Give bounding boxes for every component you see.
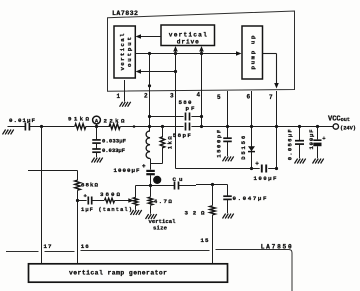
op-amp U2 LA7850 top edge bbox=[6, 251, 39, 253]
junction tantal branch bbox=[76, 199, 79, 202]
wire pin2 vertical bbox=[149, 54, 151, 132]
svg-text:0.056µF: 0.056µF bbox=[287, 129, 294, 161]
wire tantal branch bbox=[78, 200, 87, 202]
svg-text:22kΩ: 22kΩ bbox=[104, 117, 126, 124]
resistor 4.7ohm bbox=[150, 186, 152, 197]
svg-text:17: 17 bbox=[44, 243, 53, 250]
svg-text:LA7832: LA7832 bbox=[112, 10, 138, 17]
junction to pin17 drop bbox=[40, 125, 43, 128]
junction diode bottom bbox=[250, 167, 253, 170]
wire with wiper arrow into pot bbox=[115, 200, 129, 202]
capacitor 1000uF (polarized) bbox=[150, 164, 152, 170]
wire bbox=[30, 126, 75, 128]
junction pin4 top bbox=[200, 52, 203, 55]
resistor 1k (parallel) bbox=[162, 127, 164, 138]
ground 0.056uF bbox=[295, 159, 298, 164]
node A bbox=[93, 116, 101, 124]
svg-text:6: 6 bbox=[247, 93, 251, 100]
node B circle bbox=[153, 176, 161, 184]
svg-text:1: 1 bbox=[117, 93, 121, 100]
svg-text:3: 3 bbox=[170, 93, 174, 100]
wire pin2 to pin4 with 580pF bbox=[150, 116, 184, 118]
junction 32ohm bbox=[211, 183, 214, 186]
capacitor 0.033uF upper bbox=[92, 139, 101, 141]
svg-text:VCCout: VCCout bbox=[328, 115, 350, 123]
svg-text:4.7Ω: 4.7Ω bbox=[154, 198, 173, 205]
wire coil bottom to node bbox=[150, 159, 152, 164]
junction 0.056uF bbox=[298, 125, 301, 128]
svg-text:b: b bbox=[156, 178, 159, 184]
svg-text:1000µF: 1000µF bbox=[114, 167, 141, 174]
wire pin4 vertical bbox=[201, 49, 203, 127]
svg-text:pF: pF bbox=[186, 105, 196, 112]
svg-text:LA7850: LA7850 bbox=[261, 244, 292, 251]
ground 0.047uF bbox=[223, 214, 226, 219]
junction pin4 bbox=[200, 125, 203, 128]
capacitor 1500pF bbox=[223, 137, 232, 139]
wire bbox=[92, 200, 104, 202]
svg-text:68kΩ: 68kΩ bbox=[81, 182, 99, 189]
coil (deflection yoke) bbox=[146, 131, 150, 159]
ground 4.7ohm bbox=[146, 214, 149, 219]
junction pin7 bbox=[275, 125, 278, 128]
wire pin6 vertical (diode branch) bbox=[251, 91, 253, 169]
svg-text:0.033µF: 0.033µF bbox=[102, 147, 126, 154]
svg-text:vertical ramp generator: vertical ramp generator bbox=[69, 269, 167, 276]
bottom rail from vert-size pot to 0.047 corner bbox=[136, 185, 175, 187]
terminal VCCout bbox=[333, 124, 338, 129]
ground 0.033uF bbox=[92, 158, 95, 163]
arrow into drive at pin3 bbox=[175, 51, 177, 54]
junction pin2 bottom bbox=[148, 125, 151, 128]
wire to VCC terminal bbox=[191, 126, 333, 128]
junction wire-71 pin3 bbox=[174, 70, 177, 73]
junction pin3 top bbox=[174, 52, 177, 55]
junction 1k top bbox=[161, 125, 164, 128]
wire main horizontal left part bbox=[8, 126, 26, 128]
capacitor 0.033uF lower bbox=[92, 148, 101, 150]
diode D5156 bbox=[248, 146, 255, 151]
wire node A caps bbox=[96, 127, 98, 140]
svg-text:vertical: vertical bbox=[169, 32, 207, 39]
resistor 22k bbox=[109, 124, 120, 130]
wire pin17 vertical bbox=[41, 127, 43, 264]
svg-text:size: size bbox=[153, 224, 168, 231]
block: vertical drive bbox=[161, 25, 215, 46]
svg-text:16: 16 bbox=[81, 243, 90, 250]
svg-text:drive: drive bbox=[177, 39, 199, 46]
wire bbox=[86, 126, 110, 128]
capacitor 0.01uF bbox=[24, 123, 26, 131]
capacitor 0.047uF bbox=[227, 185, 229, 196]
svg-text:(24V): (24V) bbox=[340, 126, 356, 132]
junction node B rail bbox=[149, 184, 152, 187]
svg-text:5: 5 bbox=[217, 94, 221, 101]
ground pin1 bbox=[120, 102, 123, 107]
resistor 32ohm bbox=[212, 185, 214, 206]
junction pin2/cap wire bbox=[148, 115, 151, 118]
svg-text:7: 7 bbox=[269, 94, 273, 101]
capacitor 1uF tantal bbox=[87, 197, 89, 205]
svg-text:1500pF: 1500pF bbox=[216, 129, 223, 158]
junction pin2 at IC edge bbox=[148, 84, 151, 87]
capacitor 100uF series bbox=[261, 165, 263, 173]
wire pump-up to pin 7 with arrow bbox=[263, 53, 277, 55]
wire drive-to-output with arrow bbox=[138, 36, 161, 38]
junction pin6 bbox=[250, 125, 253, 128]
capacitor Cu bbox=[174, 182, 176, 190]
svg-text:58pF: 58pF bbox=[173, 132, 192, 139]
svg-text:380Ω: 380Ω bbox=[100, 191, 121, 198]
capacitor 58pF (series in wire) bbox=[185, 123, 187, 131]
wire elbow to 68k bbox=[28, 170, 78, 172]
svg-text:15: 15 bbox=[201, 237, 210, 244]
junction pin2 top bbox=[148, 52, 151, 55]
LA7850 right edge bbox=[289, 250, 292, 291]
wire bbox=[120, 126, 183, 128]
ground 100uF right bbox=[313, 159, 316, 164]
svg-text:0.033µF: 0.033µF bbox=[102, 137, 127, 144]
wire pin1 to ground bbox=[124, 80, 126, 102]
svg-text:4: 4 bbox=[197, 92, 201, 99]
resistor 91k bbox=[75, 124, 86, 130]
wire cap to bottom rail bbox=[150, 175, 152, 185]
wire output lower arrow bbox=[138, 71, 176, 73]
svg-text:32Ω: 32Ω bbox=[185, 209, 206, 216]
potentiometer vertical size bbox=[135, 186, 137, 198]
junction pin4/cap wire bbox=[200, 115, 203, 118]
junction (stray) bbox=[133, 125, 136, 128]
block: vertical output bbox=[114, 26, 135, 78]
block: pump up bbox=[242, 26, 263, 79]
capacitor 0.056uF bbox=[299, 127, 301, 141]
arrow into drive at pin4 bbox=[201, 51, 203, 54]
svg-text:1kΩ: 1kΩ bbox=[166, 136, 173, 150]
ground pot bbox=[131, 210, 134, 215]
capacitor 100uF (polarized, right) bbox=[317, 127, 319, 140]
svg-text:0.01µF: 0.01µF bbox=[9, 117, 36, 124]
svg-text:2: 2 bbox=[144, 93, 148, 100]
wire pin5 vertical bbox=[227, 91, 229, 138]
junction 100uF right bbox=[316, 125, 319, 128]
junction pin7 bottom bbox=[275, 167, 278, 170]
svg-text:+: + bbox=[255, 161, 259, 168]
resistor 68k bbox=[75, 180, 81, 190]
wire 100uF rail bbox=[197, 168, 260, 170]
svg-text:vertical: vertical bbox=[119, 33, 126, 71]
resistor 380ohm bbox=[105, 198, 115, 203]
ground 1500pF bbox=[223, 156, 226, 161]
svg-text:+: + bbox=[142, 163, 146, 170]
op-amp U1 LA7832 IC outline bbox=[108, 11, 295, 91]
block: vertical ramp generator bbox=[29, 264, 228, 282]
svg-text:100µF: 100µF bbox=[308, 129, 315, 150]
svg-text:91kΩ: 91kΩ bbox=[68, 116, 90, 123]
wire pin3 vertical and elbow to 100uF rail bbox=[175, 49, 177, 169]
junction pin5 bbox=[226, 125, 229, 128]
wire pin7 vertical bbox=[276, 91, 278, 169]
capacitor 580pF bbox=[185, 113, 187, 121]
ground far left bbox=[3, 130, 6, 135]
wire output to pump up bbox=[136, 53, 238, 55]
junction node A on wire bbox=[95, 125, 98, 128]
